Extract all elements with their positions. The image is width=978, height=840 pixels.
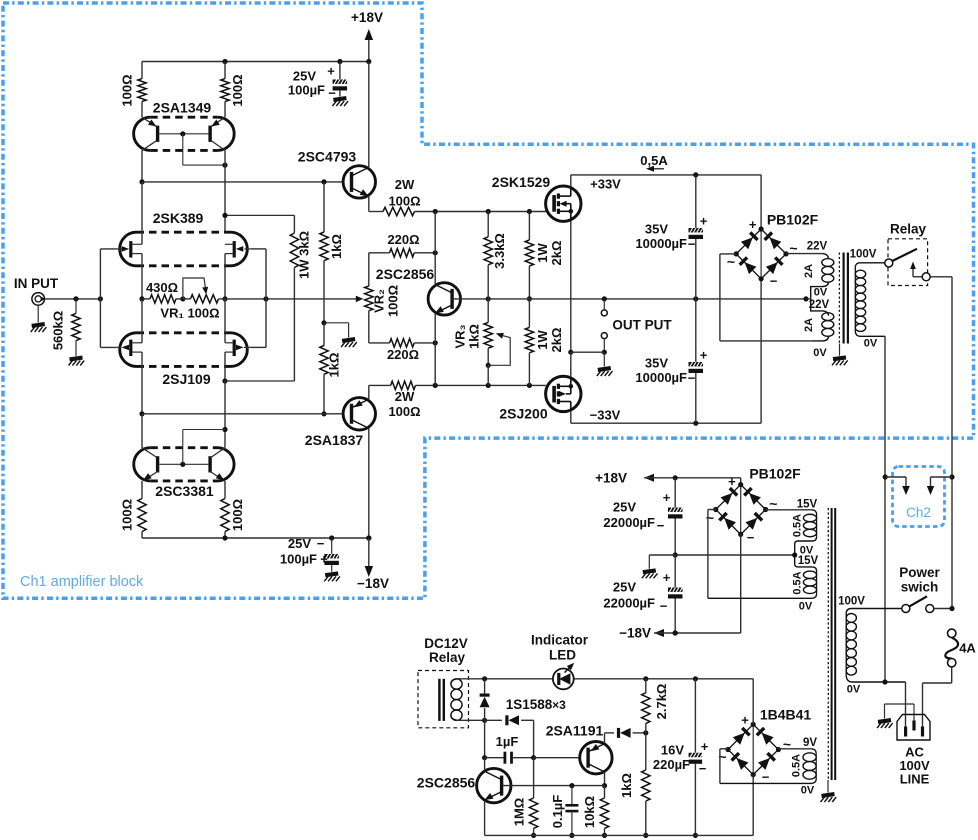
svg-text:2SC2856: 2SC2856	[376, 266, 435, 282]
svg-text:220Ω: 220Ω	[387, 232, 419, 247]
relay contact and box	[885, 222, 930, 286]
wire output mid rail	[488, 296, 808, 301]
wire LED rail to bridge3	[752, 679, 754, 725]
svg-text:−: −	[328, 86, 336, 101]
svg-text:2SA1837: 2SA1837	[305, 432, 364, 448]
wire +33V rail	[571, 172, 761, 229]
capacitor C 25V 100uF bottom	[280, 536, 340, 581]
svg-text:25V: 25V	[288, 536, 311, 551]
svg-text:1MΩ: 1MΩ	[512, 798, 527, 826]
svg-text:−: −	[317, 536, 325, 551]
svg-text:PB102F: PB102F	[767, 212, 819, 228]
wire bottom rail relay circuit	[485, 834, 754, 836]
capacitor C 35V 10000uF lower	[635, 299, 707, 423]
ground tap mid	[324, 323, 357, 347]
svg-text:2.7kΩ: 2.7kΩ	[654, 684, 669, 720]
svg-text:100µF: 100µF	[280, 552, 317, 567]
resistor 1W 2kohm upper	[525, 212, 564, 302]
svg-text:2SC4793: 2SC4793	[298, 149, 357, 165]
wire rail to 2SC4793 base	[142, 179, 347, 184]
svg-text:430Ω: 430Ω	[146, 280, 178, 295]
svg-text:100Ω: 100Ω	[388, 194, 420, 209]
svg-text:−18V: −18V	[619, 626, 651, 641]
svg-text:10kΩ: 10kΩ	[582, 796, 597, 828]
svg-text:2SJ109: 2SJ109	[162, 371, 210, 387]
svg-text:−: −	[657, 518, 665, 533]
svg-text:~: ~	[727, 254, 735, 270]
wire left column upper	[139, 150, 225, 232]
svg-text:2W: 2W	[395, 177, 415, 192]
svg-text:+: +	[700, 348, 708, 363]
svg-text:0.5A: 0.5A	[791, 754, 803, 777]
transformer core lower	[821, 508, 837, 802]
svg-text:DC12V: DC12V	[424, 636, 468, 651]
svg-text:15V: 15V	[798, 555, 819, 567]
relay coil DC12V	[418, 636, 469, 728]
svg-text:0V: 0V	[864, 338, 878, 350]
svg-text:swich: swich	[901, 580, 939, 595]
resistor 10kohm	[582, 786, 609, 838]
svg-text:0V: 0V	[813, 347, 827, 359]
transistor 2SJ200	[499, 376, 620, 422]
svg-text:1W: 1W	[535, 330, 550, 350]
svg-text:Power: Power	[899, 565, 940, 580]
potentiometer VR2 100ohm	[365, 253, 401, 343]
svg-text:VR₂: VR₂	[372, 289, 387, 313]
winding 9V 0.5A	[720, 737, 817, 797]
wire mid row to VR2	[225, 296, 363, 303]
node -18V bottom	[357, 538, 389, 591]
svg-text:0.5A: 0.5A	[792, 514, 804, 537]
svg-text:22000µF: 22000µF	[603, 596, 655, 611]
svg-text:−18V: −18V	[357, 576, 389, 591]
resistor 2.7kohm	[642, 679, 669, 733]
fuse 4A	[945, 629, 976, 667]
wire 2SA1837 base rail	[142, 413, 347, 415]
diode LED	[553, 663, 574, 690]
wire 2SA1349 base tap to right column	[183, 134, 228, 168]
resistor 2W 100ohm upper	[369, 177, 546, 216]
resistor 1kohm lower	[320, 323, 342, 417]
svg-text:+: +	[663, 570, 671, 585]
wire switch to fuse column	[934, 606, 955, 611]
resistor 1kohm relay	[619, 733, 650, 838]
svg-text:−: −	[699, 761, 707, 776]
wire 0V line to plug left pin	[905, 682, 907, 727]
resistor 3.3kohm	[484, 212, 507, 299]
node -18V psu	[619, 626, 741, 641]
svg-text:25V: 25V	[613, 580, 636, 595]
svg-text:3.3kΩ: 3.3kΩ	[492, 233, 507, 269]
transistor pair 2SK389	[117, 210, 251, 266]
svg-text:4A: 4A	[959, 641, 976, 656]
capacitor C 25V 22000uF upper	[603, 478, 682, 558]
AC plug	[897, 715, 930, 787]
capacitor C 16V 220uF	[653, 679, 709, 838]
svg-text:+: +	[728, 474, 736, 489]
svg-text:2SC3381: 2SC3381	[155, 483, 214, 499]
svg-text:+: +	[701, 739, 709, 754]
potentiometer VR1 100ohm	[160, 278, 225, 321]
svg-text:1µF: 1µF	[496, 734, 519, 749]
svg-text:2SK1529: 2SK1529	[492, 174, 551, 190]
winding 15V 0.5A upper	[766, 499, 818, 557]
svg-text:−: −	[770, 274, 778, 289]
wire psu mid to winding tap	[675, 552, 797, 557]
capacitor 1uF	[485, 734, 580, 764]
potentiometer VR3 1kohm	[453, 299, 511, 386]
svg-text:22V: 22V	[807, 241, 828, 253]
node IN PUT jack	[14, 276, 59, 332]
winding 100V primary upper	[850, 249, 886, 350]
svg-text:2SA1349: 2SA1349	[153, 100, 212, 116]
svg-text:0V: 0V	[814, 286, 828, 298]
svg-text:10000µF: 10000µF	[635, 236, 687, 251]
svg-text:16V: 16V	[661, 743, 684, 758]
wire relay coil bottom	[456, 718, 487, 723]
wire input to gates	[45, 249, 117, 348]
svg-text:100V: 100V	[838, 596, 865, 608]
svg-text:Relay: Relay	[429, 650, 466, 665]
svg-text:2A: 2A	[803, 264, 815, 278]
svg-text:VR₁ 100Ω: VR₁ 100Ω	[160, 306, 219, 321]
transistor 2SK1529	[492, 174, 581, 221]
transistor pair 2SA1349	[134, 100, 235, 151]
svg-text:+: +	[741, 713, 749, 728]
bridge rectifier PB102F lower	[706, 466, 801, 546]
node OUT PUT terminals	[601, 299, 672, 355]
transistor pair 2SJ109	[117, 333, 251, 387]
svg-text:+18V: +18V	[595, 470, 627, 485]
label 0.5A with arrow	[640, 153, 668, 172]
svg-text:2W: 2W	[395, 389, 415, 404]
svg-text:220µF: 220µF	[653, 757, 690, 772]
wire 2SK1529 source column	[568, 221, 573, 355]
wire bridge left loop to 22V winding 0V	[720, 254, 812, 341]
svg-text:0V: 0V	[801, 785, 815, 797]
svg-text:Ch2: Ch2	[906, 505, 931, 520]
svg-text:25V: 25V	[293, 69, 316, 84]
svg-text:560kΩ: 560kΩ	[51, 311, 66, 350]
wire relay to right column	[930, 277, 952, 609]
svg-text:VR₃: VR₃	[453, 324, 468, 348]
svg-text:2SA1191: 2SA1191	[546, 723, 604, 739]
svg-text:2kΩ: 2kΩ	[549, 328, 564, 353]
svg-text:1kΩ: 1kΩ	[327, 353, 342, 378]
wire plug mid pin to ground	[877, 704, 914, 728]
svg-text:2kΩ: 2kΩ	[549, 241, 564, 266]
svg-text:Indicator: Indicator	[531, 633, 589, 648]
wire 2SC3381 base tap	[183, 430, 225, 465]
resistor 100ohm bottom-right	[221, 481, 245, 538]
transformer core upper	[832, 253, 848, 366]
svg-text:100Ω: 100Ω	[388, 404, 420, 419]
svg-text:25V: 25V	[613, 500, 636, 515]
svg-text:9V: 9V	[803, 737, 817, 749]
wire 100V primary 0V down	[884, 336, 886, 682]
svg-text:0V: 0V	[799, 601, 813, 613]
wire bridge2 bottom to -18V	[740, 534, 742, 633]
svg-text:2SJ200: 2SJ200	[499, 406, 547, 422]
wire right gates column	[251, 249, 266, 348]
svg-text:1W 3kΩ: 1W 3kΩ	[297, 231, 312, 279]
winding 22V 2A upper	[786, 241, 834, 299]
svg-text:+: +	[327, 64, 335, 79]
svg-text:100Ω: 100Ω	[120, 499, 135, 531]
svg-text:−: −	[660, 599, 668, 614]
svg-text:LINE: LINE	[900, 772, 930, 787]
diode 1S1588 series	[485, 697, 567, 758]
resistor 100ohm top-left	[120, 62, 147, 118]
wire bottom rail Ch1	[142, 535, 371, 540]
svg-text:+: +	[663, 490, 671, 505]
svg-text:+: +	[320, 552, 328, 567]
resistor 220ohm upper	[369, 232, 438, 257]
box Ch2	[893, 467, 945, 527]
wire 2SK389 drains/sources columns	[139, 182, 227, 302]
svg-text:+: +	[749, 217, 757, 232]
svg-text:1S1588: 1S1588	[506, 697, 553, 712]
resistor 1Mohm	[512, 758, 538, 838]
svg-text:2SK389: 2SK389	[153, 210, 204, 226]
svg-text:−33V: −33V	[590, 408, 621, 423]
svg-text:Relay: Relay	[890, 222, 927, 237]
svg-text:~: ~	[783, 736, 791, 752]
wire Ch2 arrow left	[883, 474, 910, 495]
svg-text:0V: 0V	[847, 684, 861, 696]
wire x435 column	[434, 212, 436, 386]
resistor 560kohm	[51, 299, 85, 366]
wire source to output ground	[571, 352, 613, 376]
transistor 2SC4793	[298, 62, 376, 212]
bridge rectifier PB102F upper	[727, 212, 819, 289]
diode 1S1588 to 2.7k	[605, 728, 649, 738]
wire relay driver column	[482, 720, 487, 760]
svg-text:1kΩ: 1kΩ	[619, 773, 634, 798]
svg-text:1kΩ: 1kΩ	[329, 234, 344, 259]
svg-text:PB102F: PB102F	[749, 466, 801, 482]
svg-text:−: −	[747, 530, 755, 545]
svg-text:IN PUT: IN PUT	[14, 276, 59, 291]
svg-text:100Ω: 100Ω	[230, 74, 245, 106]
svg-text:~: ~	[706, 510, 714, 526]
diode flyback 1S1588	[480, 679, 490, 721]
svg-text:100Ω: 100Ω	[386, 285, 401, 317]
label Ch1 amplifier block	[20, 574, 144, 590]
wire top rail +18V	[142, 59, 371, 64]
capacitor C 25V 100uF top	[288, 62, 348, 107]
svg-text:35V: 35V	[645, 356, 668, 371]
svg-text:15V: 15V	[797, 499, 818, 511]
wire Ch2 arrow right	[927, 474, 955, 495]
wire bridge2 left loop	[708, 510, 716, 599]
svg-text:−: −	[688, 237, 696, 252]
svg-text:100µF: 100µF	[288, 83, 325, 98]
wire 2SJ200 drain column and -33V rail	[571, 279, 761, 426]
label Indicator LED	[531, 633, 589, 663]
svg-text:100Ω: 100Ω	[120, 74, 135, 106]
svg-text:100Ω: 100Ω	[230, 499, 245, 531]
transistor 2SC2856 upper	[376, 253, 491, 343]
wire fuse to plug right pin	[923, 667, 952, 727]
svg-text:22V: 22V	[809, 299, 830, 311]
svg-text:×3: ×3	[552, 698, 566, 712]
svg-text:2SC2856: 2SC2856	[417, 775, 476, 791]
svg-text:1B4B41: 1B4B41	[760, 707, 812, 723]
capacitor 0.1uF	[550, 786, 578, 838]
svg-text:0,5A: 0,5A	[640, 153, 668, 168]
capacitor C 25V 22000uF lower	[603, 555, 682, 636]
svg-text:Ch1 amplifier block: Ch1 amplifier block	[20, 574, 144, 590]
transistor 2SA1191	[546, 723, 612, 789]
capacitor C 35V 10000uF upper	[635, 175, 707, 299]
svg-text:35V: 35V	[645, 222, 668, 237]
wire 2SC2856 base row	[503, 783, 605, 788]
svg-text:1kΩ: 1kΩ	[467, 324, 482, 349]
svg-text:+18V: +18V	[351, 10, 383, 25]
resistor 1W 3kohm	[222, 213, 311, 381]
resistor 220ohm lower	[369, 339, 438, 362]
svg-text:1W: 1W	[535, 243, 550, 263]
resistor 100ohm bottom-left	[120, 481, 147, 538]
bridge rectifier 1B4B41	[718, 707, 811, 785]
svg-text:LED: LED	[549, 648, 576, 663]
transistor 2SA1837	[305, 385, 376, 540]
node +18V psu	[595, 470, 741, 485]
winding 22V 2A lower	[803, 299, 834, 359]
winding 15V 0.5A lower	[708, 555, 819, 613]
blue dashed border Ch1 amplifier block	[3, 3, 974, 598]
switch Power swich	[899, 565, 940, 613]
svg-text:220Ω: 220Ω	[387, 347, 419, 362]
resistor 100ohm top-right	[221, 62, 245, 118]
svg-text:−: −	[762, 770, 770, 785]
svg-text:22000µF: 22000µF	[603, 515, 655, 530]
transistor 2SC2856 lower	[417, 758, 511, 836]
winding 100V primary lower	[838, 596, 905, 696]
svg-text:+: +	[700, 214, 708, 229]
transistor pair 2SC3381	[134, 448, 234, 499]
wire 2SJ109 columns	[139, 299, 227, 448]
resistor 2W 100ohm lower	[369, 381, 546, 419]
svg-text:2A: 2A	[803, 318, 815, 332]
svg-text:0.5A: 0.5A	[792, 571, 804, 594]
svg-text:100V: 100V	[850, 249, 877, 261]
wire main LED rail	[456, 676, 753, 681]
svg-text:+33V: +33V	[590, 177, 621, 192]
resistor 1W 2kohm lower	[525, 299, 564, 386]
resistor 1kohm upper	[320, 182, 344, 326]
resistor 430ohm	[142, 280, 185, 303]
svg-text:OUT PUT: OUT PUT	[612, 318, 672, 333]
svg-text:−: −	[688, 371, 696, 386]
node +18V	[351, 10, 383, 62]
svg-text:0.1µF: 0.1µF	[550, 795, 565, 829]
wire psu mid to ground	[642, 555, 675, 578]
svg-text:10000µF: 10000µF	[635, 370, 687, 385]
wire bridge3 bottom to rail	[752, 775, 754, 836]
